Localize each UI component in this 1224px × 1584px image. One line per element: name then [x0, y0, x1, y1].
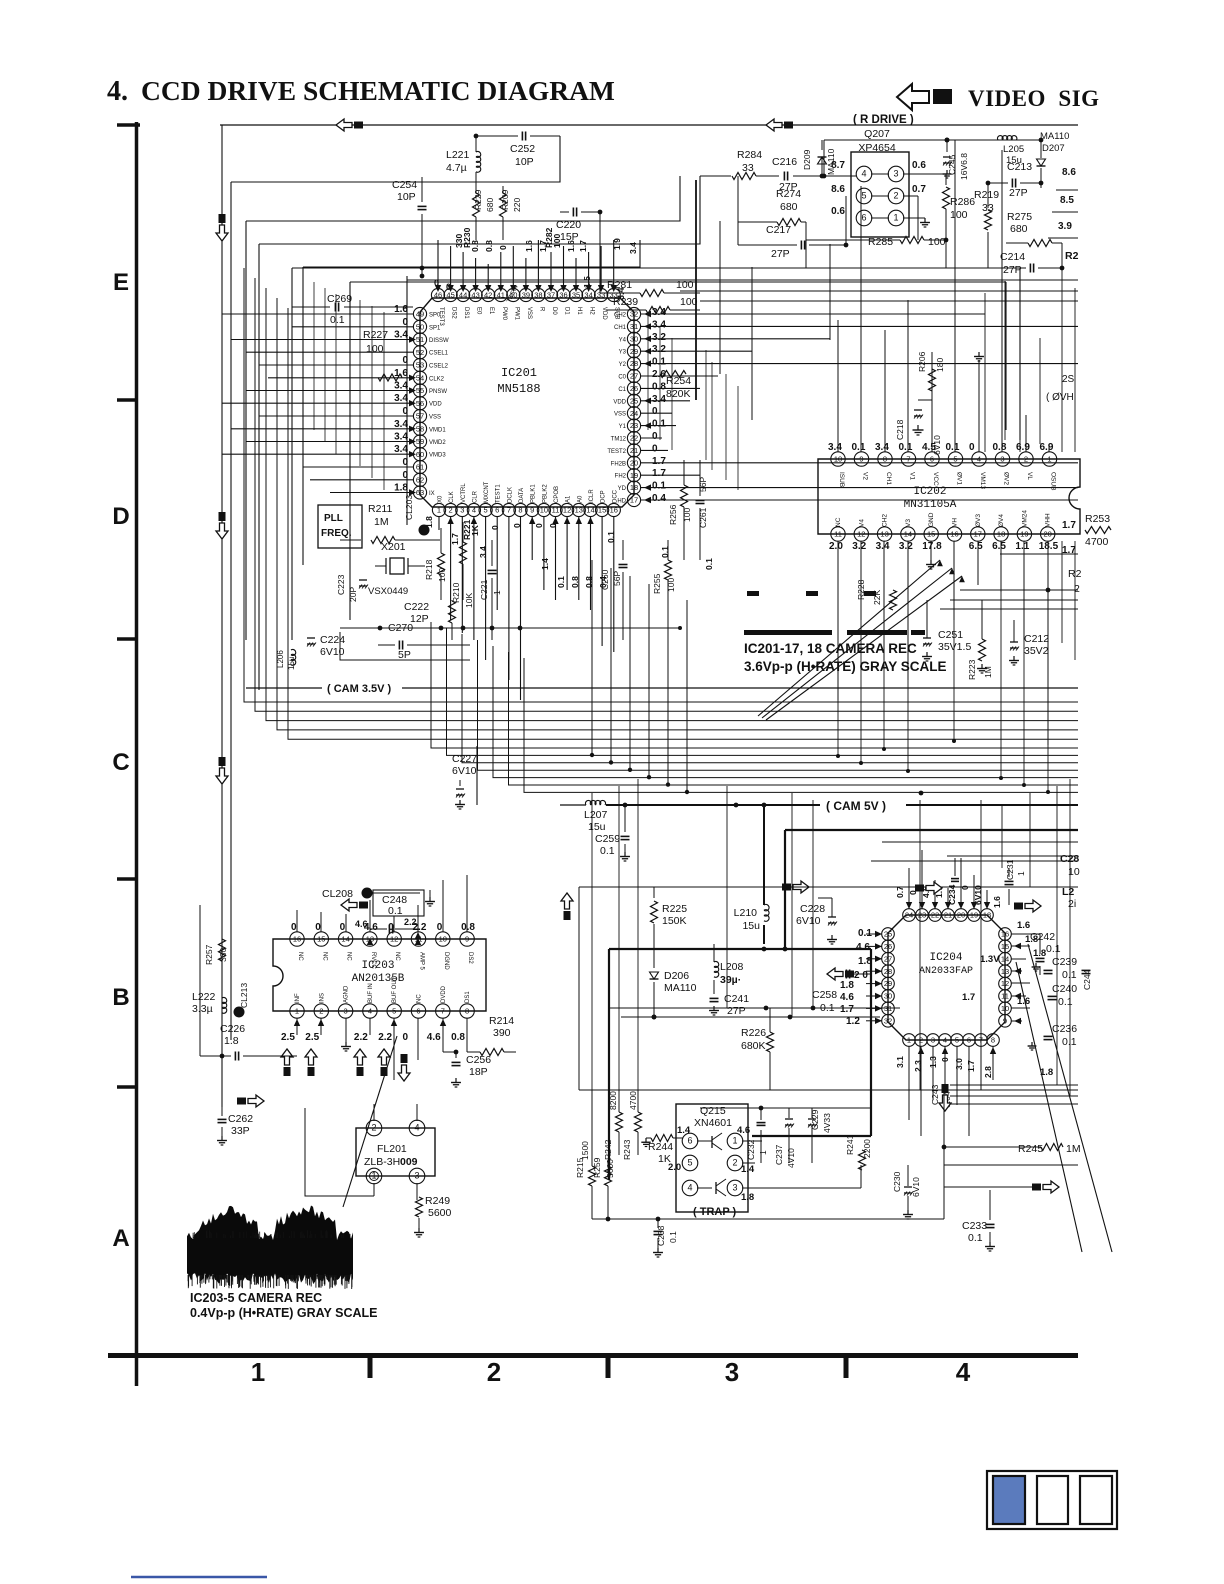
svg-text:C227: C227 — [452, 753, 477, 765]
wire box right mid — [408, 275, 1078, 277]
svg-text:5: 5 — [861, 191, 866, 201]
svg-text:2: 2 — [371, 1123, 376, 1133]
svg-text:16: 16 — [293, 935, 301, 944]
svg-text:3.4: 3.4 — [828, 442, 842, 453]
node CL213 — [234, 1007, 245, 1018]
svg-text:1.6: 1.6 — [394, 304, 408, 315]
IC204 left feeds — [866, 933, 882, 935]
svg-text:R209: R209 — [500, 189, 510, 210]
capacitor C212 — [1010, 641, 1018, 643]
resistor R257 — [219, 939, 226, 961]
inductor L206 — [291, 649, 296, 655]
svg-text:12: 12 — [857, 530, 865, 539]
svg-text:C256: C256 — [466, 1054, 491, 1066]
conn arrow below IC204 — [939, 1095, 951, 1111]
IC204 top feeds — [908, 868, 910, 909]
svg-text:59: 59 — [416, 437, 424, 446]
svg-text:1.8: 1.8 — [224, 1035, 239, 1047]
svg-text:53: 53 — [416, 361, 424, 370]
svg-text:0.1: 0.1 — [704, 558, 714, 570]
svg-text:680: 680 — [780, 201, 798, 213]
svg-text:3.0: 3.0 — [954, 1058, 964, 1070]
svg-text:10K: 10K — [464, 593, 474, 608]
svg-text:54: 54 — [416, 373, 424, 382]
svg-text:DISSW: DISSW — [429, 338, 449, 344]
svg-text:5: 5 — [955, 1036, 959, 1045]
svg-text:11: 11 — [552, 506, 560, 515]
svg-text:NC: NC — [297, 952, 303, 961]
svg-text:DS2: DS2 — [451, 307, 457, 319]
svg-text:27: 27 — [884, 954, 892, 963]
svg-text:0.8: 0.8 — [451, 1032, 465, 1043]
svg-text:BUF OUT: BUF OUT — [392, 976, 398, 1003]
svg-text:1.4: 1.4 — [741, 1164, 755, 1175]
svg-text:8200: 8200 — [608, 1091, 618, 1110]
svg-text:R275: R275 — [1007, 211, 1032, 223]
svg-text:2.5: 2.5 — [305, 1032, 319, 1043]
svg-text:R211: R211 — [368, 503, 392, 515]
conn arrow bottom right — [1043, 1181, 1059, 1193]
resistor R242 — [616, 1112, 623, 1132]
svg-text:58: 58 — [416, 424, 424, 433]
wire rails right 280-291 — [407, 279, 1078, 281]
svg-text:GND: GND — [928, 512, 935, 527]
svg-text:2: 2 — [893, 191, 898, 201]
svg-text:C262: C262 — [228, 1113, 253, 1125]
resistor R215 — [589, 1166, 596, 1186]
svg-text:R259: R259 — [592, 1157, 602, 1178]
svg-text:0.8: 0.8 — [461, 922, 475, 933]
svg-text:R227: R227 — [363, 329, 388, 341]
svg-text:3: 3 — [931, 1036, 935, 1045]
svg-text:0: 0 — [498, 245, 508, 250]
svg-text:14: 14 — [341, 935, 349, 944]
capacitor C234 — [951, 878, 959, 880]
IC203 top pin feeds — [296, 910, 298, 932]
svg-text:VIDEO SIG: VIDEO SIG — [968, 86, 1100, 111]
svg-text:1M: 1M — [374, 516, 389, 528]
capacitor C238 — [657, 1219, 659, 1228]
conn arrow left mid — [561, 893, 573, 909]
svg-text:MN31105A: MN31105A — [904, 499, 957, 511]
svg-text:21: 21 — [944, 911, 952, 920]
svg-text:IC201: IC201 — [501, 366, 537, 380]
svg-text:1.8: 1.8 — [840, 980, 854, 991]
svg-text:5600: 5600 — [605, 1159, 615, 1178]
svg-text:1: 1 — [295, 1007, 299, 1016]
svg-text:C245: C245 — [947, 154, 957, 175]
svg-text:INS: INS — [319, 993, 325, 1003]
svg-text:HD: HD — [617, 499, 626, 505]
svg-text:3.1: 3.1 — [895, 1056, 905, 1068]
svg-text:26: 26 — [630, 384, 638, 393]
svg-text:9: 9 — [465, 935, 469, 944]
svg-text:6: 6 — [861, 213, 866, 223]
svg-text:DATA: DATA — [519, 488, 525, 503]
svg-text:1: 1 — [758, 1150, 768, 1155]
svg-text:R274: R274 — [776, 188, 801, 200]
svg-text:XP4654: XP4654 — [858, 142, 896, 154]
svg-text:2.5: 2.5 — [281, 1032, 295, 1043]
svg-text:L207: L207 — [584, 809, 608, 821]
wire thick bus B — [609, 948, 871, 950]
svg-text:8: 8 — [883, 455, 887, 464]
svg-text:NC: NC — [321, 952, 327, 961]
svg-text:( CAM 5V ): ( CAM 5V ) — [826, 799, 886, 813]
svg-text:SP0: SP0 — [429, 313, 441, 319]
svg-text:D: D — [112, 503, 129, 530]
svg-text:R284: R284 — [737, 149, 762, 161]
conn arrow right 887 — [926, 882, 942, 894]
svg-text:L210: L210 — [734, 907, 758, 919]
wire IC203 loop — [199, 905, 201, 1056]
svg-text:39µ·: 39µ· — [720, 974, 741, 986]
svg-text:1.6: 1.6 — [1017, 920, 1030, 931]
svg-text:PLL: PLL — [324, 513, 343, 524]
svg-text:C216: C216 — [772, 156, 797, 168]
conn arrow leftv1 — [216, 225, 228, 241]
resistor R244 — [651, 1135, 673, 1142]
svg-text:DVDD: DVDD — [441, 985, 447, 1003]
inductor L208 — [714, 961, 719, 967]
svg-text:4: 4 — [368, 1007, 372, 1016]
svg-text:35V1.5: 35V1.5 — [938, 641, 971, 653]
svg-text:X201: X201 — [381, 541, 406, 553]
svg-text:56: 56 — [416, 399, 424, 408]
svg-text:15: 15 — [927, 530, 935, 539]
svg-text:1K: 1K — [658, 1153, 671, 1165]
svg-text:C269: C269 — [327, 293, 352, 305]
svg-text:R219: R219 — [974, 189, 999, 201]
wire thick bus C — [784, 830, 786, 949]
pointer arrowheads IC202 — [937, 560, 943, 566]
svg-text:24: 24 — [630, 409, 638, 418]
capacitor C261 — [696, 500, 705, 502]
waveform IC203-5 gray scale — [187, 1206, 353, 1284]
IC204 right nets — [1011, 933, 1040, 935]
svg-text:0.1: 0.1 — [852, 442, 866, 453]
wire Q207 top rail — [824, 139, 1041, 141]
svg-text:VDD: VDD — [613, 399, 626, 405]
svg-text:0.1: 0.1 — [820, 1002, 835, 1014]
svg-text:0: 0 — [652, 431, 658, 442]
svg-text:1.8: 1.8 — [1040, 1067, 1053, 1078]
conn arrow IC203 p5 — [398, 1065, 410, 1081]
svg-text:CSEL2: CSEL2 — [429, 364, 449, 370]
svg-text:0: 0 — [437, 922, 443, 933]
conn arrow top-mid — [766, 119, 782, 131]
svg-text:C259: C259 — [595, 833, 620, 845]
wire box IC201 outer2 — [350, 281, 1006, 283]
svg-text:4.6: 4.6 — [856, 942, 870, 953]
svg-text:220: 220 — [512, 198, 522, 212]
svg-text:CH2: CH2 — [614, 313, 627, 319]
svg-text:1.6: 1.6 — [524, 240, 534, 252]
resistor R218 — [438, 553, 445, 575]
svg-text:29: 29 — [630, 347, 638, 356]
svg-text:B: B — [112, 984, 129, 1011]
video sig arrow icon — [897, 84, 929, 110]
svg-text:C232: C232 — [746, 1139, 756, 1160]
svg-text:FH2: FH2 — [615, 474, 627, 480]
svg-text:7: 7 — [441, 1007, 445, 1016]
svg-text:20: 20 — [630, 458, 638, 467]
svg-text:17: 17 — [630, 496, 638, 505]
wire bottom rail — [592, 1218, 944, 1220]
pointer lines to IC202 pins — [758, 560, 940, 716]
svg-text:VL: VL — [1026, 472, 1033, 480]
svg-text:19: 19 — [630, 471, 638, 480]
svg-text:CSEL1: CSEL1 — [429, 351, 449, 357]
svg-text:1.7: 1.7 — [1062, 520, 1076, 531]
svg-text:5: 5 — [484, 506, 488, 515]
svg-text:VMD2: VMD2 — [429, 440, 446, 446]
wire rails right mid — [882, 841, 1078, 843]
svg-text:25: 25 — [630, 396, 638, 405]
svg-text:R229: R229 — [473, 189, 483, 210]
svg-text:1.4: 1.4 — [677, 1125, 691, 1136]
svg-text:1: 1 — [893, 213, 898, 223]
resistor R225 — [653, 887, 655, 898]
svg-text:55: 55 — [416, 386, 424, 395]
svg-text:1.7: 1.7 — [966, 1060, 976, 1072]
resistor R210 — [449, 601, 456, 623]
svg-text:0: 0 — [315, 922, 321, 933]
svg-text:16: 16 — [610, 506, 618, 515]
svg-text:PBLK1: PBLK1 — [531, 484, 537, 503]
svg-text:0: 0 — [403, 1032, 409, 1043]
net CAM 5V — [606, 804, 820, 806]
svg-text:R218: R218 — [424, 559, 434, 580]
svg-text:6: 6 — [416, 1007, 420, 1016]
conn arrow leftv2 — [216, 523, 228, 539]
svg-text:0: 0 — [940, 1057, 950, 1062]
svg-text:009: 009 — [400, 1156, 418, 1168]
svg-text:L208: L208 — [720, 961, 744, 973]
svg-text:MA110: MA110 — [826, 148, 836, 175]
svg-text:R257: R257 — [204, 944, 214, 965]
svg-text:CLK: CLK — [449, 491, 455, 503]
svg-text:2.2: 2.2 — [404, 917, 417, 927]
svg-text:( ØVH: ( ØVH — [1046, 392, 1074, 403]
svg-text:15: 15 — [598, 506, 606, 515]
svg-text:27P: 27P — [771, 248, 790, 260]
svg-text:3.4: 3.4 — [652, 319, 666, 330]
svg-text:5: 5 — [392, 1007, 396, 1016]
svg-text:3: 3 — [460, 506, 464, 515]
resistor R253 — [1085, 527, 1111, 534]
svg-text:C221: C221 — [479, 579, 489, 600]
svg-text:C234: C234 — [947, 884, 957, 905]
svg-text:0.1: 0.1 — [330, 314, 345, 326]
svg-text:C258: C258 — [812, 989, 837, 1001]
svg-text:C224: C224 — [320, 634, 345, 646]
page nav widget — [987, 1471, 1117, 1529]
svg-text:C251: C251 — [938, 629, 963, 641]
svg-text:10P: 10P — [397, 191, 416, 203]
svg-text:18.5: 18.5 — [1039, 541, 1059, 552]
wire rail 1017 — [621, 1016, 880, 1018]
waveform IC201-17 marks — [747, 591, 759, 596]
wire box IC201 outer — [292, 267, 1020, 269]
ground Q207 pin1 — [903, 217, 925, 219]
capacitor C237 — [785, 1118, 793, 1120]
svg-text:2200: 2200 — [862, 1139, 872, 1158]
svg-text:4: 4 — [472, 506, 476, 515]
svg-text:3.2: 3.2 — [652, 344, 666, 355]
svg-text:C252: C252 — [510, 143, 535, 155]
svg-text:Y4: Y4 — [619, 337, 627, 343]
svg-text:ØV2: ØV2 — [1003, 472, 1010, 485]
svg-text:28: 28 — [630, 359, 638, 368]
diode D209 — [821, 158, 823, 176]
svg-text:49: 49 — [416, 310, 424, 319]
svg-text:0: 0 — [490, 525, 500, 530]
svg-text:0: 0 — [652, 443, 658, 454]
svg-text:29: 29 — [884, 979, 892, 988]
svg-text:6: 6 — [967, 1036, 971, 1045]
capacitor C233 — [986, 1223, 995, 1225]
svg-text:C240: C240 — [1052, 983, 1077, 995]
axis tick 2-3 — [606, 1355, 611, 1378]
svg-text:0: 0 — [548, 523, 558, 528]
svg-text:3: 3 — [893, 169, 898, 179]
svg-text:C226: C226 — [220, 1023, 245, 1035]
svg-text:22: 22 — [630, 434, 638, 443]
resistor R249 — [416, 1196, 418, 1200]
svg-text:3: 3 — [344, 1007, 348, 1016]
svg-text:C218: C218 — [895, 419, 905, 440]
svg-text:6V10: 6V10 — [932, 435, 942, 455]
svg-text:11: 11 — [1001, 992, 1009, 1001]
svg-text:A: A — [112, 1225, 129, 1252]
svg-text:50: 50 — [416, 322, 424, 331]
svg-text:4: 4 — [956, 1357, 971, 1387]
svg-text:1: 1 — [732, 1136, 737, 1146]
IC203 bottom pin nets — [296, 1018, 298, 1035]
svg-text:16: 16 — [1001, 930, 1009, 939]
svg-text:1.8: 1.8 — [394, 483, 408, 494]
svg-text:1: 1 — [437, 506, 441, 515]
svg-text:4.6: 4.6 — [737, 1125, 750, 1136]
capacitor C251 — [923, 637, 931, 639]
svg-text:C222: C222 — [404, 601, 429, 613]
svg-text:0: 0 — [969, 442, 975, 453]
svg-text:R249: R249 — [425, 1195, 450, 1207]
svg-text:R228: R228 — [856, 579, 866, 600]
resistor R286 — [945, 174, 947, 185]
svg-text:DCP: DCP — [601, 490, 607, 503]
svg-text:6V10: 6V10 — [973, 885, 983, 905]
svg-text:R281: R281 — [607, 279, 632, 291]
svg-text:VCC: VCC — [932, 472, 939, 486]
svg-text:IC203: IC203 — [361, 960, 394, 972]
svg-text:4.6: 4.6 — [355, 919, 368, 929]
svg-text:3: 3 — [732, 1183, 737, 1193]
svg-text:3: 3 — [725, 1357, 739, 1387]
svg-text:C242: C242 — [1030, 931, 1055, 943]
svg-text:RVCC: RVCC — [370, 952, 376, 970]
svg-text:TEST2: TEST2 — [607, 449, 626, 455]
resistor R209 — [500, 193, 507, 217]
svg-text:31: 31 — [630, 322, 638, 331]
svg-text:ØV4: ØV4 — [998, 514, 1005, 527]
svg-text:YD: YD — [618, 486, 627, 492]
svg-text:0: 0 — [434, 278, 439, 288]
svg-text:1500: 1500 — [580, 1141, 590, 1160]
svg-text:150K: 150K — [662, 915, 687, 927]
svg-text:5: 5 — [953, 455, 957, 464]
svg-text:5P: 5P — [398, 649, 411, 661]
svg-text:24: 24 — [905, 911, 913, 920]
svg-text:8: 8 — [991, 1036, 995, 1045]
svg-text:MA110: MA110 — [1040, 131, 1069, 142]
svg-text:1.6: 1.6 — [1017, 996, 1030, 1007]
svg-text:20: 20 — [1044, 530, 1052, 539]
svg-text:18P: 18P — [469, 1066, 488, 1078]
svg-text:18: 18 — [997, 530, 1005, 539]
svg-text:9: 9 — [530, 506, 534, 515]
svg-text:0.1: 0.1 — [652, 481, 666, 492]
svg-text:H1: H1 — [576, 307, 582, 315]
svg-text:0.7: 0.7 — [895, 886, 905, 898]
capacitor C260 — [619, 564, 628, 566]
svg-text:0.1: 0.1 — [668, 1231, 678, 1243]
svg-text:2S: 2S — [1062, 374, 1075, 385]
svg-text:30: 30 — [884, 992, 892, 1001]
svg-text:1.4: 1.4 — [540, 558, 550, 570]
svg-text:FH2B: FH2B — [611, 461, 626, 467]
pointer line IC204a — [1016, 962, 1082, 1252]
svg-text:OSUB: OSUB — [1050, 472, 1057, 490]
svg-text:35V2: 35V2 — [1024, 645, 1049, 657]
svg-text:19: 19 — [970, 911, 978, 920]
svg-text:CLR: CLR — [472, 490, 478, 503]
svg-text:CH1: CH1 — [614, 325, 627, 331]
svg-text:15: 15 — [1001, 942, 1009, 951]
capacitor C256 — [455, 1052, 457, 1058]
svg-text:0.1: 0.1 — [1062, 969, 1077, 981]
svg-text:8: 8 — [465, 1007, 469, 1016]
wire FL201 left — [305, 1108, 374, 1196]
svg-text:VMD1: VMD1 — [429, 427, 446, 433]
svg-text:3.4: 3.4 — [394, 393, 408, 404]
svg-text:9: 9 — [1003, 1016, 1007, 1025]
ground at VM13 — [978, 352, 980, 357]
IC202 bottom wires to bus — [837, 700, 839, 756]
svg-text:Q215: Q215 — [700, 1105, 726, 1117]
resistor R254 — [660, 371, 686, 378]
svg-text:VM24: VM24 — [1021, 510, 1028, 527]
svg-text:A1: A1 — [566, 495, 572, 503]
svg-text:C223: C223 — [336, 574, 346, 595]
svg-text:R286: R286 — [950, 196, 975, 208]
svg-text:2: 2 — [732, 1158, 737, 1168]
svg-text:33: 33 — [742, 162, 754, 174]
svg-text:5: 5 — [687, 1158, 692, 1168]
svg-text:X0: X0 — [438, 495, 444, 503]
svg-text:1.7: 1.7 — [652, 468, 666, 479]
svg-text:100: 100 — [680, 296, 698, 308]
svg-text:V2: V2 — [862, 472, 869, 480]
svg-text:D206: D206 — [664, 970, 689, 982]
svg-text:12: 12 — [1001, 979, 1009, 988]
svg-text:ØV1: ØV1 — [956, 472, 963, 485]
conn arrow top-left — [336, 119, 352, 131]
svg-text:62: 62 — [416, 475, 424, 484]
capacitor C229 — [808, 1118, 816, 1120]
svg-text:1.8: 1.8 — [858, 956, 872, 967]
